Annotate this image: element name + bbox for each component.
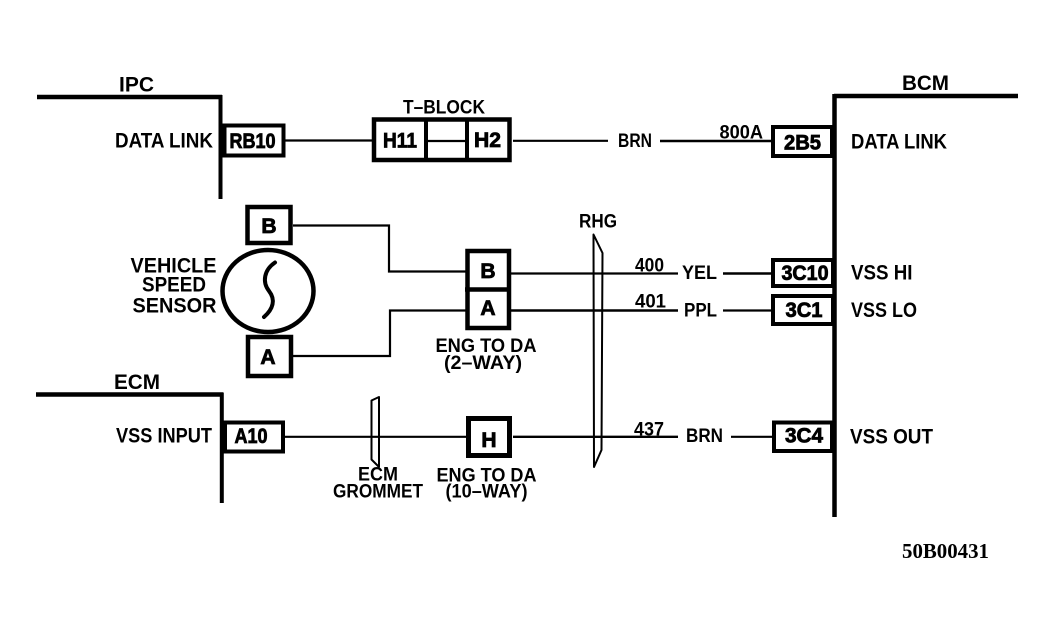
svg-text:DATA LINK: DATA LINK bbox=[115, 130, 213, 153]
connector divider bbox=[465, 287, 511, 292]
svg-text:2B5: 2B5 bbox=[784, 132, 821, 155]
svg-text:B: B bbox=[480, 260, 495, 283]
wire YEL to 3C10 bbox=[723, 272, 772, 275]
svg-text:H11: H11 bbox=[383, 130, 417, 153]
wire 437 left segment bbox=[513, 436, 678, 438]
wire A10 to H bbox=[284, 436, 466, 438]
connector ENG TO DA 2-way outer bbox=[468, 251, 510, 328]
svg-text:A: A bbox=[260, 346, 275, 369]
wire BRN to 3C4 bbox=[731, 436, 773, 438]
RHG grommet bbox=[594, 235, 603, 468]
wire 401 left segment bbox=[511, 309, 678, 312]
connector terminal RB10 bbox=[225, 126, 284, 156]
svg-text:YEL: YEL bbox=[682, 263, 717, 284]
IPC module right edge bbox=[219, 95, 223, 199]
svg-text:H2: H2 bbox=[474, 129, 501, 152]
svg-text:BCM: BCM bbox=[902, 72, 949, 95]
sensor terminal B bbox=[248, 207, 291, 243]
T-BLOCK internal wire bbox=[426, 140, 467, 142]
svg-text:VSS OUT: VSS OUT bbox=[850, 426, 933, 449]
svg-text:50B00431: 50B00431 bbox=[902, 539, 989, 563]
svg-text:VSS LO: VSS LO bbox=[851, 299, 917, 322]
svg-text:RHG: RHG bbox=[579, 212, 617, 233]
svg-text:A: A bbox=[480, 297, 495, 320]
connector terminal 3C1 bbox=[773, 296, 833, 324]
svg-text:3C1: 3C1 bbox=[786, 299, 823, 322]
ECM module top edge bbox=[36, 392, 223, 397]
ECM module right edge bbox=[220, 393, 224, 504]
svg-text:401: 401 bbox=[635, 292, 666, 313]
wire H2 to BRN bbox=[513, 140, 608, 142]
svg-text:A10: A10 bbox=[235, 425, 268, 448]
svg-text:BRN: BRN bbox=[618, 131, 652, 152]
vehicle speed sensor body bbox=[223, 250, 314, 332]
svg-text:VSS HI: VSS HI bbox=[851, 262, 913, 285]
svg-text:BRN: BRN bbox=[686, 426, 723, 447]
svg-text:B: B bbox=[261, 215, 276, 238]
T-BLOCK outer box bbox=[374, 120, 510, 161]
svg-text:437: 437 bbox=[634, 420, 664, 441]
wire RB10 to T-BLOCK bbox=[285, 139, 372, 141]
IPC module top edge bbox=[37, 95, 222, 100]
svg-text:T–BLOCK: T–BLOCK bbox=[403, 98, 485, 119]
svg-text:(10–WAY): (10–WAY) bbox=[446, 482, 528, 503]
T-BLOCK divider 1 bbox=[424, 118, 428, 162]
svg-text:400: 400 bbox=[635, 256, 664, 277]
svg-text:RB10: RB10 bbox=[230, 130, 276, 153]
connector terminal 3C4 bbox=[774, 423, 832, 452]
svg-text:SPEED: SPEED bbox=[142, 274, 206, 297]
wire 400 left segment bbox=[511, 272, 678, 274]
svg-text:GROMMET: GROMMET bbox=[333, 481, 423, 502]
sensor terminal A bbox=[248, 337, 291, 376]
connector terminal H bbox=[469, 419, 510, 456]
svg-text:H: H bbox=[481, 429, 496, 452]
connector terminal A10 bbox=[225, 423, 283, 452]
svg-text:VSS INPUT: VSS INPUT bbox=[116, 425, 212, 448]
svg-text:PPL: PPL bbox=[684, 301, 717, 322]
wire sensor A to connector A bbox=[293, 311, 466, 357]
BCM module top edge bbox=[834, 94, 1018, 99]
connector terminal 3C10 bbox=[773, 260, 833, 286]
wire BRN to 2B5 bbox=[660, 140, 772, 143]
wire PPL to 3C1 bbox=[723, 309, 772, 311]
svg-text:IPC: IPC bbox=[119, 74, 154, 97]
svg-text:3C10: 3C10 bbox=[782, 262, 829, 285]
sensor squiggle bbox=[264, 263, 275, 318]
BCM module left edge bbox=[832, 94, 837, 517]
svg-text:800A: 800A bbox=[720, 123, 764, 144]
T-BLOCK divider 2 bbox=[465, 118, 469, 162]
svg-text:(2–WAY): (2–WAY) bbox=[444, 353, 522, 374]
connector terminal 2B5 bbox=[773, 127, 832, 156]
svg-text:DATA LINK: DATA LINK bbox=[851, 131, 947, 154]
svg-text:SENSOR: SENSOR bbox=[133, 295, 217, 318]
wire sensor B to connector B bbox=[293, 226, 466, 272]
svg-text:3C4: 3C4 bbox=[785, 425, 823, 448]
ECM grommet shape bbox=[372, 397, 380, 467]
svg-text:ECM: ECM bbox=[114, 371, 160, 394]
